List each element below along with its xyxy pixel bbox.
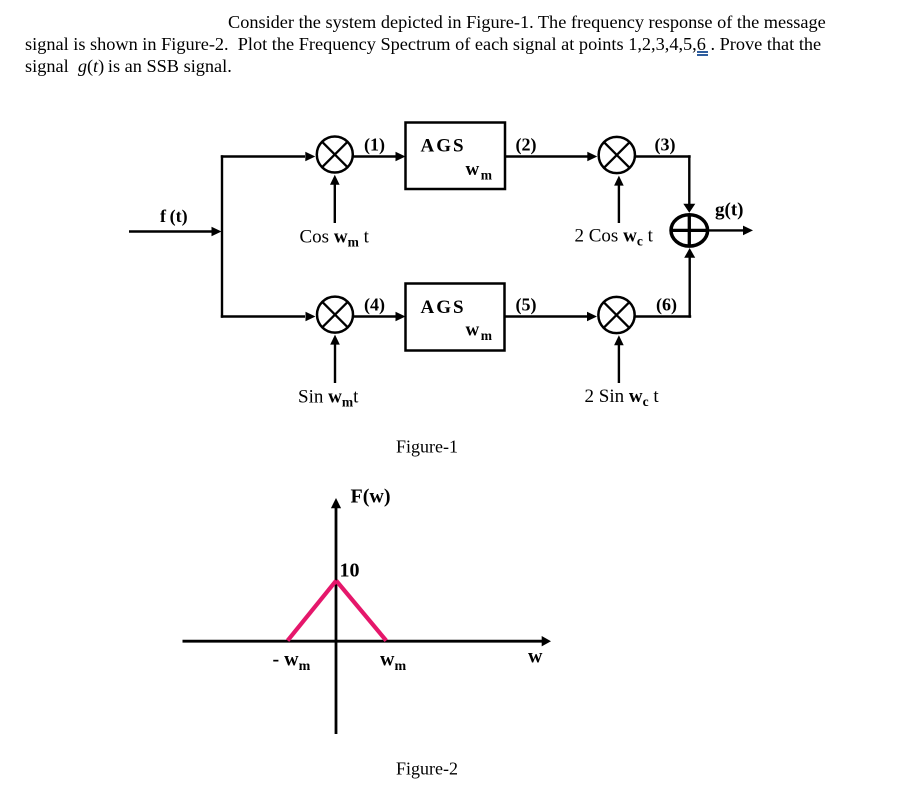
svg-text:w: w bbox=[528, 646, 543, 668]
svg-text:wm: wm bbox=[380, 649, 406, 675]
axis: w horizontal bbox=[183, 636, 552, 646]
spectrum triangle right leg bbox=[336, 581, 386, 641]
svg-text:AGS: AGS bbox=[421, 297, 466, 318]
paragraph line 2 bbox=[25, 34, 821, 55]
wire: carrier arrow into M4 bbox=[330, 335, 340, 383]
svg-text:(1): (1) bbox=[364, 135, 385, 156]
wire: M2 to corner bbox=[636, 155, 691, 157]
multiplier M1 bbox=[317, 137, 353, 173]
svg-text:Cos wm t: Cos wm t bbox=[300, 227, 370, 250]
wire: AGS1 to M2 bbox=[505, 152, 597, 162]
svg-text:(4): (4) bbox=[364, 295, 385, 316]
multiplier M4 bbox=[317, 297, 353, 333]
block AGS1 bbox=[406, 123, 506, 190]
svg-text:AGS: AGS bbox=[421, 136, 466, 157]
svg-text:(6): (6) bbox=[656, 295, 677, 316]
axis: F(w) vertical bbox=[331, 498, 341, 734]
wire: input junction vertical bbox=[221, 155, 223, 317]
svg-text:10: 10 bbox=[340, 560, 360, 582]
svg-text:f (t): f (t) bbox=[160, 206, 188, 227]
svg-text:2 Sin wc t: 2 Sin wc t bbox=[585, 386, 660, 409]
svg-text:(2): (2) bbox=[516, 135, 537, 156]
wire: bottom branch into M4 bbox=[221, 312, 316, 322]
svg-text:- wm: - wm bbox=[273, 649, 311, 675]
wire: M1 to AGS1 bbox=[353, 152, 406, 162]
wire: carrier arrow into M2 bbox=[614, 176, 624, 223]
wire: M4 to AGS2 bbox=[353, 312, 406, 322]
svg-text:(5): (5) bbox=[516, 295, 537, 316]
svg-text:g(t): g(t) bbox=[715, 200, 743, 221]
block AGS2 bbox=[406, 284, 505, 351]
svg-text:2 Cos wc t: 2 Cos wc t bbox=[575, 226, 654, 249]
wire: carrier arrow into M6 bbox=[614, 335, 624, 383]
svg-text:Figure-1: Figure-1 bbox=[396, 437, 458, 457]
svg-text:(3): (3) bbox=[655, 135, 676, 156]
summing junction bbox=[671, 214, 708, 247]
paragraph line 1 bbox=[228, 12, 826, 33]
svg-text:Figure-2: Figure-2 bbox=[396, 759, 458, 779]
multiplier M2 bbox=[599, 137, 635, 173]
multiplier M6 bbox=[598, 297, 634, 333]
wire: top branch into multiplier M1 bbox=[221, 152, 315, 162]
svg-text:F(w): F(w) bbox=[351, 486, 391, 508]
wire: g(t) output arrow bbox=[708, 226, 753, 236]
wire: f(t) input arrow bbox=[129, 227, 222, 237]
wire: corner down into summer bbox=[683, 155, 695, 212]
spectrum triangle left leg bbox=[288, 581, 337, 641]
wire: M6 to corner bbox=[635, 315, 691, 317]
wire: corner up into summer bbox=[684, 248, 695, 318]
paragraph line 3 bbox=[25, 56, 232, 77]
wire: AGS2 to M6 bbox=[505, 312, 598, 322]
wire: carrier arrow into M1 bbox=[330, 175, 340, 223]
svg-text:Sin wmt: Sin wmt bbox=[298, 387, 359, 410]
